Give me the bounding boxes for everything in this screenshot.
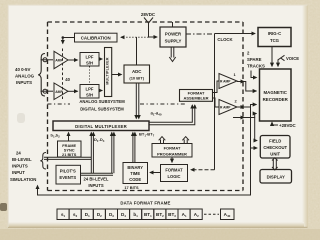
bus binary time to digital multiplexer — [132, 133, 134, 163]
svg-text:CLOCK: CLOCK — [217, 37, 233, 42]
wire frame sync to digital multiplexer — [68, 133, 70, 142]
svg-text:MAGNETIC: MAGNETIC — [263, 90, 287, 95]
wire amp1 to lpf1 — [68, 59, 78, 61]
svg-text:S/H: S/H — [86, 60, 93, 65]
frame sync box — [58, 141, 82, 157]
wire lpf1 to analog multiplexer — [99, 58, 102, 60]
svg-text:TCG: TCG — [270, 38, 280, 43]
wire monitor to field checkout (lower) — [251, 107, 258, 148]
wire voice to recorder — [278, 58, 281, 66]
wire amp2 to lpf2 — [68, 90, 78, 92]
svg-text:+28VDC: +28VDC — [279, 123, 297, 128]
wire simulation feedback — [38, 148, 251, 195]
field checkout unit box — [260, 136, 290, 159]
svg-text:DIGITAL MULTIPLEXER: DIGITAL MULTIPLEXER — [75, 124, 127, 129]
dotted link between LPF boxes — [89, 67, 91, 85]
svg-text:(10 BIT): (10 BIT) — [129, 75, 144, 80]
node +28VDC recorder supply — [272, 124, 278, 126]
svg-text:24 BI-LEVEL: 24 BI-LEVEL — [84, 177, 109, 182]
wire calibration branch to ADC — [136, 37, 138, 65]
data format frame word row — [57, 209, 202, 220]
svg-text:VOICE: VOICE — [286, 56, 299, 61]
wire calibration to amplifier inputs — [63, 38, 75, 44]
svg-text:FIELD: FIELD — [269, 139, 281, 144]
input terminal 2 — [41, 90, 54, 92]
record amplifier 1 — [219, 74, 237, 89]
svg-text:DISPLAY: DISPLAY — [267, 175, 285, 180]
display box — [260, 170, 292, 184]
svg-text:DATA FORMAT FRAME: DATA FORMAT FRAME — [120, 201, 170, 206]
pilot's events box — [56, 165, 81, 184]
wire clock line — [186, 33, 215, 35]
IRIG-C TCG box — [258, 28, 291, 47]
bus inputs to digital multiplexer — [111, 133, 113, 174]
connector field checkout to display — [272, 158, 278, 170]
svg-text:40 0-5V: 40 0-5V — [15, 67, 30, 72]
LPF S/H box 1 — [80, 53, 99, 67]
wire clock branch to format logic — [214, 34, 216, 170]
system boundary dashed box — [48, 22, 244, 191]
svg-text:S/H: S/H — [86, 92, 93, 97]
ADC box — [124, 65, 150, 83]
wire programmer to format logic — [171, 157, 173, 162]
wire record amp2 to recorder — [237, 106, 244, 108]
svg-text:CHECKOUT: CHECKOUT — [263, 145, 287, 150]
node VOICE input — [281, 55, 285, 60]
wire analog multiplexer to ADC — [112, 74, 122, 76]
svg-text:FORMAT: FORMAT — [165, 168, 183, 173]
wire monitor to field checkout (upper) — [255, 118, 257, 141]
svg-text:40: 40 — [65, 77, 70, 82]
digital multiplexer box — [53, 121, 149, 131]
wire format logic to binary time code — [150, 172, 161, 174]
wire bi-level inputs — [44, 156, 91, 158]
svg-text:EVENTS: EVENTS — [59, 175, 76, 180]
LPF S/H box 2 — [80, 85, 99, 99]
svg-text:ASSEMBLER: ASSEMBLER — [183, 96, 208, 101]
input terminal 1 — [41, 59, 54, 61]
svg-text:FORMAT: FORMAT — [164, 145, 181, 150]
svg-text:LOGIC: LOGIC — [168, 174, 181, 179]
svg-text:INPUTS: INPUTS — [12, 164, 28, 169]
control arrow programmer up 2 — [182, 137, 189, 144]
svg-text:R AMP: R AMP — [220, 80, 231, 84]
svg-text:MULTIPLEXER: MULTIPLEXER — [105, 57, 109, 84]
svg-text:INPUT: INPUT — [12, 170, 25, 175]
svg-text:BI-LEVEL: BI-LEVEL — [12, 157, 32, 162]
svg-text:RECORDER: RECORDER — [263, 97, 289, 102]
svg-text:SPARE: SPARE — [247, 57, 262, 62]
wire assembler to record amp 1 — [213, 81, 220, 93]
svg-text:UNIT: UNIT — [270, 151, 280, 156]
svg-text:LPF: LPF — [86, 55, 94, 60]
wire record amp1 to recorder — [237, 81, 244, 83]
power supply box — [160, 27, 186, 47]
calibration box — [75, 33, 118, 42]
record amplifier 2 — [219, 100, 237, 115]
svg-text:TIME: TIME — [130, 171, 140, 176]
svg-text:PILOT'S: PILOT'S — [60, 168, 76, 173]
wire 28VDC to power supply — [149, 23, 158, 37]
svg-text:24: 24 — [16, 151, 21, 156]
analog/digital subsystem separator — [48, 103, 187, 105]
wire track 4 line — [233, 117, 244, 119]
amplifier AMP1 — [54, 51, 68, 68]
format programmer box — [152, 144, 192, 158]
analog multiplexer box — [105, 48, 112, 97]
svg-text:R AMP: R AMP — [220, 106, 231, 110]
svg-text:SUPPLY: SUPPLY — [165, 39, 182, 44]
svg-text:ANALOG: ANALOG — [15, 74, 35, 79]
svg-text:AMP: AMP — [55, 59, 63, 63]
wire power supply output arrow — [169, 47, 175, 62]
word A40 box — [221, 209, 235, 220]
wire TCG to recorder — [271, 47, 273, 67]
wire spare track input — [251, 71, 257, 78]
binary time code box — [123, 163, 148, 184]
magnetic recorder box — [260, 69, 292, 121]
wire lpf2 to analog multiplexer — [99, 90, 102, 92]
svg-text:BINARY: BINARY — [127, 165, 143, 170]
format assembler box — [180, 90, 213, 102]
svg-text:AMP: AMP — [55, 90, 63, 94]
bus ADC to digital multiplexer — [135, 83, 137, 119]
svg-text:CALIBRATION: CALIBRATION — [81, 36, 111, 41]
wire calibration dotted feed — [121, 36, 149, 38]
svg-text:DIGITAL SUBSYSTEM: DIGITAL SUBSYSTEM — [80, 106, 124, 111]
wire assembler to record amp 2 — [213, 98, 220, 107]
svg-text:INPUTS: INPUTS — [16, 80, 32, 85]
amplifier AMP2 — [54, 83, 68, 100]
format logic box — [161, 165, 188, 182]
svg-text:LPF: LPF — [86, 87, 94, 92]
svg-text:21 BITS: 21 BITS — [62, 152, 77, 157]
svg-text:17 BITS: 17 BITS — [124, 185, 139, 190]
ellipsis in word row — [204, 213, 219, 215]
svg-text:POWER: POWER — [165, 32, 182, 37]
svg-text:ADC: ADC — [132, 69, 142, 74]
svg-text:IRIG-C: IRIG-C — [268, 31, 281, 36]
bus events to digital multiplexer — [90, 133, 92, 174]
svg-text:TRACKS: TRACKS — [247, 64, 265, 69]
svg-text:28VDC: 28VDC — [141, 12, 156, 17]
svg-text:INPUTS: INPUTS — [88, 183, 104, 188]
wire power supply feed from boundary — [172, 22, 174, 27]
svg-text:SIMULATION: SIMULATION — [10, 177, 36, 182]
control arrow programmer up 1 — [159, 137, 166, 144]
svg-text:ANALOG SUBSYSTEM: ANALOG SUBSYSTEM — [79, 99, 125, 104]
svg-text:PROGRAMMER: PROGRAMMER — [157, 151, 187, 156]
bus digital multiplexer to format assembler — [149, 105, 192, 122]
svg-text:CODE: CODE — [129, 177, 141, 182]
